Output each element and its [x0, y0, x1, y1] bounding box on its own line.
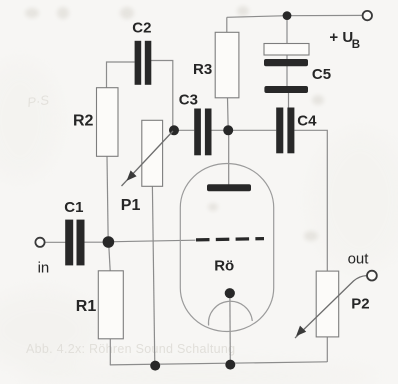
- svg-text:in: in: [38, 260, 50, 277]
- svg-text:out: out: [348, 250, 370, 267]
- svg-text:P2: P2: [351, 296, 369, 313]
- svg-text:B: B: [352, 39, 360, 51]
- svg-text:P1: P1: [121, 197, 141, 214]
- svg-text:P·S: P·S: [26, 92, 50, 110]
- svg-text:R1: R1: [76, 298, 97, 315]
- svg-text:C4: C4: [297, 113, 317, 130]
- svg-text:Abb. 4.2x: Röhren Sound Schalt: Abb. 4.2x: Röhren Sound Schaltung: [26, 342, 235, 356]
- svg-text:C5: C5: [312, 66, 331, 83]
- svg-text:C2: C2: [132, 20, 151, 37]
- svg-text:C1: C1: [64, 199, 83, 216]
- svg-text:C3: C3: [179, 92, 198, 109]
- svg-text:R2: R2: [73, 112, 94, 129]
- svg-text:R3: R3: [193, 61, 212, 78]
- svg-text:+ U: + U: [329, 29, 353, 46]
- svg-text:Rö: Rö: [214, 258, 234, 275]
